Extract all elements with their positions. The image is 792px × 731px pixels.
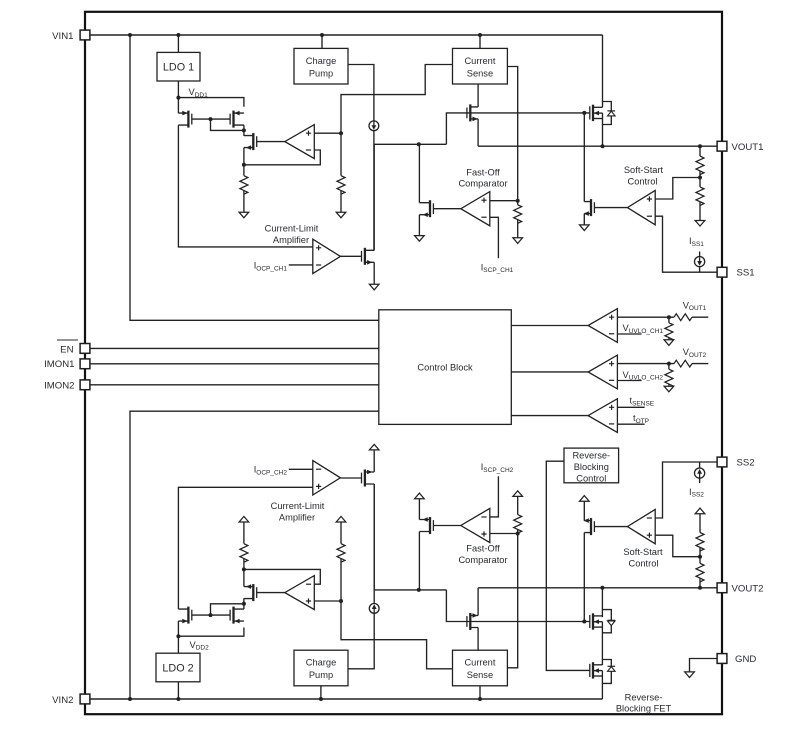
resistor R10 xyxy=(240,544,248,563)
resistor R9 xyxy=(665,369,673,388)
wire VIN1 to current sense xyxy=(479,35,481,48)
wire M13 drain down to gate-drive line (CH2) xyxy=(373,484,375,590)
node current-sense voltage xyxy=(339,131,343,135)
ground above R12 xyxy=(513,491,523,497)
block Reverse-Blocking Control xyxy=(564,448,619,483)
wire SS - input to SS2 pin (CH2) xyxy=(655,462,717,518)
wire control block to UVLO1 comparator xyxy=(511,325,588,327)
wire M7 source to ground xyxy=(583,214,585,225)
wire SS - input to SS1 pin xyxy=(655,216,717,272)
block Current Sense (CH2) xyxy=(453,650,508,686)
wire UVLO2 - stub xyxy=(617,380,641,382)
svg-text:EN: EN xyxy=(60,344,73,355)
wire VIN2 rail xyxy=(85,698,602,700)
resistor R7 xyxy=(665,323,673,342)
wire divider top resistor stem (CH2) xyxy=(699,578,701,588)
wire sense node up to Current Sense block xyxy=(341,65,453,134)
ground above R11 xyxy=(336,516,346,522)
ground below M5 xyxy=(415,236,425,242)
transistor M8 current-mirror left (CH2) xyxy=(178,607,191,624)
wire R13 to tap xyxy=(699,557,701,564)
svg-text:Control: Control xyxy=(629,558,659,568)
svg-text:Pump: Pump xyxy=(309,670,333,680)
wire ISS1 to SS1 line xyxy=(699,267,701,273)
svg-text:Control: Control xyxy=(628,177,658,187)
wire charge pump output xyxy=(348,65,374,121)
svg-text:IOCP_CH2: IOCP_CH2 xyxy=(254,465,288,477)
ground below R3 xyxy=(513,238,523,244)
wire IMON1 input xyxy=(85,363,379,365)
junction VOUT1 / divider xyxy=(698,144,702,148)
wire tap to SS + input xyxy=(655,178,700,200)
svg-text:LDO 1: LDO 1 xyxy=(163,62,194,74)
resistor R4 divider top xyxy=(696,156,704,175)
resistor R5 divider bottom xyxy=(696,187,704,206)
wire VIN1 to LDO1 xyxy=(177,35,179,52)
transistor M10 sense mirror (CH2) xyxy=(244,584,257,601)
svg-text:Comparator: Comparator xyxy=(458,555,507,565)
ground at GND pin xyxy=(685,672,695,678)
body diode of Q2 xyxy=(608,620,616,625)
svg-text:VUVLO_CH1: VUVLO_CH1 xyxy=(623,323,664,335)
current source gate-drive (CH2) xyxy=(369,604,379,614)
svg-text:ISS1: ISS1 xyxy=(689,236,704,248)
wire CL amp output to clamp gate (CH2) xyxy=(340,477,361,479)
block Charge Pump (CH2) xyxy=(294,650,348,686)
wire IOCP_CH1 - input stub xyxy=(289,264,313,266)
wire VIN2 to charge pump (CH2) xyxy=(320,686,322,699)
wire M7 drain to gate line xyxy=(583,113,585,202)
wire current source to gate node xyxy=(373,131,375,251)
comparator Fast-Off (CH1) xyxy=(461,192,490,226)
comparator thermal shutdown xyxy=(588,399,617,433)
wire fast-off output to pulldown gate xyxy=(433,208,460,210)
svg-text:GND: GND xyxy=(735,654,756,665)
junction VOUT2 / divider xyxy=(698,586,702,590)
wire UVLO1 - stub xyxy=(617,333,641,335)
wire VOUT1 rail xyxy=(478,145,717,147)
wire control block to thermal comparator xyxy=(511,415,588,417)
comparator VUVLO_CH2 xyxy=(588,355,617,389)
wire tap to R5 xyxy=(699,178,701,187)
wire feedback node resistor stem xyxy=(243,165,245,176)
op-amp Current-Limit Amplifier (CH1) xyxy=(313,239,341,273)
node VDD1 xyxy=(176,96,180,100)
wire tap to R14 xyxy=(699,547,701,556)
wire Q1 body diode branch xyxy=(603,102,612,111)
svg-text:Blocking FET: Blocking FET xyxy=(616,704,672,714)
wire A2 - feedback (CH2) xyxy=(244,569,320,584)
ground above M13 xyxy=(369,444,379,450)
wire sense FET source to VOUT1 xyxy=(477,119,479,146)
block Control Block xyxy=(379,310,512,425)
svg-text:SS1: SS1 xyxy=(737,267,755,278)
wire control block to UVLO2 comparator xyxy=(511,371,588,373)
pin VOUT2 xyxy=(717,583,727,593)
svg-text:Sense: Sense xyxy=(467,69,493,79)
wire IMON2 input xyxy=(85,384,379,386)
ground above R10 xyxy=(239,516,249,522)
wire M10 source to feedback node (CH2) xyxy=(243,569,245,586)
wire Q1 diode return xyxy=(603,116,612,125)
wire VIN1 to charge pump xyxy=(321,35,323,48)
svg-text:Charge: Charge xyxy=(306,56,337,66)
wire IOCP_CH2 - input stub xyxy=(289,468,313,470)
svg-text:VDD2: VDD2 xyxy=(190,640,210,652)
ground below R9 xyxy=(664,386,674,392)
wire sense FET drain to Current Sense (CH2) xyxy=(477,628,479,651)
ground below M6 xyxy=(369,284,379,290)
wire M2 drain to M3 drain xyxy=(243,125,245,136)
transistor Q1 blocking FET xyxy=(590,105,603,121)
comparator VUVLO_CH1 xyxy=(588,309,617,343)
label pin EN with overline xyxy=(57,340,78,355)
svg-text:IMON2: IMON2 xyxy=(44,380,74,391)
pin VOUT1 xyxy=(717,141,727,151)
op-amp A1 gate-drive amplifier xyxy=(285,125,315,159)
pin EN xyxy=(80,344,90,354)
wire CL amp output to clamp gate xyxy=(340,255,361,257)
resistor R11 xyxy=(337,544,345,563)
current source ISS1 xyxy=(695,257,705,267)
wire R8 to VOUT2 stub xyxy=(692,363,708,365)
svg-text:Current-Limit: Current-Limit xyxy=(271,501,325,511)
wire VOUT2 to blocking FET drain xyxy=(601,588,603,617)
wire GND pin to ground symbol xyxy=(690,659,718,672)
wire mirror gates xyxy=(192,118,230,120)
resistor R12 xyxy=(514,515,522,534)
svg-text:Blocking: Blocking xyxy=(574,462,609,472)
transistor M6 gate clamp xyxy=(362,248,375,265)
block LDO 2 xyxy=(156,653,200,682)
wire LDO1 output to VDD1 node xyxy=(177,81,179,98)
ground below R1 xyxy=(239,212,249,218)
junction VIN2 rail / left loop xyxy=(128,697,132,701)
ground below M7 xyxy=(580,225,590,231)
wire Q2 body diode branch xyxy=(602,610,611,621)
wire A1 output to M3 gate xyxy=(257,141,285,143)
wire R12 to ground xyxy=(517,496,519,514)
transistor M1 current-mirror left xyxy=(178,111,191,128)
wire VIN2 to current sense (CH2) xyxy=(479,686,481,699)
svg-text:VOUT2: VOUT2 xyxy=(683,347,707,359)
wire gate tie to M9 drain (CH2) xyxy=(211,604,244,615)
wire mirror gates (CH2) xyxy=(192,614,230,616)
wire A2 output to M10 gate xyxy=(257,592,285,594)
wire M9 drain to M10 drain xyxy=(243,598,245,609)
junction VIN1 rail / left loop xyxy=(128,33,132,37)
wire fast-off - input ISCP_CH2 xyxy=(490,476,499,517)
wire current source to gate node (CH2) xyxy=(373,484,375,604)
node VDD2 xyxy=(176,634,180,638)
junction VIN2 rail / current sense xyxy=(478,697,482,701)
junction gate line / soft-start pulldown xyxy=(582,111,586,115)
wire tOTP - stub xyxy=(617,423,644,425)
junction mirror gate tie (CH2) xyxy=(209,613,213,617)
junction VOUT2 / Q2 drain xyxy=(600,586,604,590)
pin GND xyxy=(717,654,727,664)
wire SS amp output to pulldown gate (CH2) xyxy=(594,526,627,528)
node current-sense voltage (CH2) xyxy=(339,599,343,603)
resistor R14 divider bottom (CH2) xyxy=(696,533,704,552)
transistor M5 fast-off pulldown xyxy=(419,200,433,217)
pin VIN2 xyxy=(80,694,90,704)
pin IMON2 xyxy=(80,380,90,390)
svg-text:VIN1: VIN1 xyxy=(52,31,73,42)
transistor M12 fast-off pulldown (CH2) xyxy=(419,517,433,534)
wire M6 source to ground xyxy=(373,262,375,284)
wire tap to SS + input (CH2) xyxy=(655,535,700,557)
svg-text:Pump: Pump xyxy=(309,69,333,79)
wire A2 + input to sense node (CH2) xyxy=(314,600,341,602)
junction mirror gate tie xyxy=(209,117,213,121)
block Current Sense (CH1) xyxy=(453,48,508,84)
wire A1 - feedback xyxy=(244,150,320,165)
wire R9 to ground xyxy=(668,384,670,386)
wire UVLO2 + input xyxy=(617,363,674,365)
svg-text:VOUT2: VOUT2 xyxy=(732,583,764,594)
wire M14 source to ground (CH2) xyxy=(583,501,585,520)
pin SS2 xyxy=(717,457,727,467)
ground below R2 xyxy=(336,212,346,218)
wire UVLO2 divider stem xyxy=(668,364,670,370)
wire R14 to ground xyxy=(699,514,701,533)
junction UVLO1 + node xyxy=(667,315,671,319)
wire M14 drain to gate line (CH2) xyxy=(583,533,585,622)
transistor Q3 reverse-blocking FET xyxy=(590,662,603,678)
resistor R3 xyxy=(514,205,522,224)
transistor M2 current-mirror right xyxy=(230,111,244,128)
wire M12 drain to gate node (CH2) xyxy=(418,532,420,590)
wire fast-off + input xyxy=(490,200,518,202)
wire A1 + input to sense node xyxy=(314,132,341,134)
junction gate node / fast-off pulldown xyxy=(417,142,421,146)
wire fast-off + resistor stem xyxy=(517,201,519,205)
wire VDD2 up to mirror left source xyxy=(177,621,179,636)
wire feedback node resistor stem (CH2) xyxy=(243,559,245,570)
ground above R14 xyxy=(695,508,705,514)
svg-text:Fast-Off: Fast-Off xyxy=(466,167,500,177)
wire M8 drain to current-limit amp + input (CH2) xyxy=(178,487,312,609)
wire M5 drain to gate node xyxy=(418,144,420,202)
comparator Fast-Off (CH2) xyxy=(461,508,490,542)
svg-text:VOUT1: VOUT1 xyxy=(732,142,764,153)
wire gate node up to FET gates xyxy=(446,113,590,144)
svg-text:Current: Current xyxy=(464,658,495,668)
wire R11 to ground xyxy=(340,522,342,544)
svg-text:VUVLO_CH2: VUVLO_CH2 xyxy=(623,370,664,382)
wire R4 to tap xyxy=(699,171,701,178)
svg-text:Comparator: Comparator xyxy=(458,179,507,189)
wire fast-off output to pulldown gate (CH2) xyxy=(433,525,460,527)
wire M3 source to feedback node xyxy=(243,148,245,165)
svg-text:Current: Current xyxy=(464,56,495,66)
transistor Q2 blocking FET (CH2) xyxy=(590,613,603,629)
node divider tap (CH2) xyxy=(698,555,702,559)
wire R2 to ground xyxy=(340,191,342,213)
pin SS1 xyxy=(717,267,727,277)
wire M12 source to ground (CH2) xyxy=(418,499,420,520)
resistor R8 VOUT2 sense xyxy=(674,360,692,367)
wire gate tie to M2 drain xyxy=(211,119,244,130)
svg-text:Soft-Start: Soft-Start xyxy=(623,547,663,557)
wire Q2 diode return xyxy=(602,626,611,633)
wire sense FET source to VOUT2 xyxy=(477,588,479,616)
wire gate node branch (CH2) xyxy=(374,589,446,591)
svg-text:LDO 2: LDO 2 xyxy=(162,662,193,674)
wire VIN1 to blocking FET drain xyxy=(602,35,604,107)
transistor M11 sense FET (CH2) xyxy=(467,613,478,630)
junction fast-off + node xyxy=(516,199,520,203)
junction VIN1 rail / charge pump xyxy=(320,33,324,37)
wire ISS1 stub top xyxy=(699,252,701,257)
wire gate node branch xyxy=(374,143,447,145)
junction M2 drain node xyxy=(242,128,246,132)
transistor M3 sense mirror xyxy=(244,133,257,150)
svg-text:ISCP_CH1: ISCP_CH1 xyxy=(481,262,514,274)
wire M1 drain to current-limit amp + input xyxy=(178,125,312,247)
svg-text:Amplifier: Amplifier xyxy=(279,512,315,522)
wire R6 to VOUT1 stub xyxy=(692,316,708,318)
op-amp A2 gate-drive amplifier (CH2) xyxy=(285,576,315,610)
op-amp Soft-Start Control (CH2) xyxy=(627,509,655,543)
resistor R1 xyxy=(240,176,248,195)
wire M13 source to ground (CH2) xyxy=(373,450,375,472)
body diode of Q1 xyxy=(608,111,616,116)
block Charge Pump (CH1) xyxy=(294,48,348,84)
junction feedback node (CH2) xyxy=(242,567,246,571)
svg-text:Fast-Off: Fast-Off xyxy=(466,543,500,553)
junction feedback node xyxy=(242,163,246,167)
node divider tap xyxy=(698,176,702,180)
wire Current Sense output to fast-off comparator (CH2) xyxy=(507,534,517,668)
svg-text:IOCP_CH1: IOCP_CH1 xyxy=(254,261,288,273)
wire reverse-blocking control to Q3 gate xyxy=(546,461,590,670)
wire tSENSE + stub xyxy=(617,406,644,408)
wire charge pump output (CH2) xyxy=(348,613,374,669)
wire VIN2 to LDO2 xyxy=(177,682,179,699)
wire VIN1 to control block (left loop) xyxy=(130,35,379,320)
op-amp Current-Limit Amplifier (CH2) xyxy=(313,461,341,495)
wire UVLO1 divider stem xyxy=(668,317,670,323)
wire VDD2 rail to mirror right source xyxy=(178,628,244,637)
ground above M14 xyxy=(580,496,590,502)
junction M9 drain node (CH2) xyxy=(242,602,246,606)
svg-text:Current-Limit: Current-Limit xyxy=(265,224,319,234)
ground above M12 xyxy=(415,493,425,499)
wire divider top resistor stem xyxy=(699,146,701,156)
junction VIN2 rail / charge pump xyxy=(319,697,323,701)
wire EN input xyxy=(85,347,379,349)
junction gate line / soft-start pulldown (CH2) xyxy=(582,620,586,624)
wire VDD1 down to mirror left source xyxy=(177,98,179,114)
wire R3 to ground xyxy=(517,220,519,238)
wire Q3 source to VIN2 rail xyxy=(601,671,603,699)
transistor M7 soft-start pulldown xyxy=(584,199,595,216)
wire ISS2 stub bottom xyxy=(699,478,701,483)
wire VOUT2 rail xyxy=(478,587,717,589)
block LDO 1 xyxy=(157,52,200,81)
wire sense node resistor stem xyxy=(340,133,342,176)
wire Q3 diode return xyxy=(602,671,611,683)
junction fast-off + node (CH2) xyxy=(516,532,520,536)
junction VIN1 rail / LDO1 xyxy=(176,33,180,37)
wire fast-off + input (CH2) xyxy=(490,533,518,535)
wire sense node down to Current Sense block (CH2) xyxy=(341,601,453,669)
ground below R5 xyxy=(695,221,705,227)
wire R10 to ground xyxy=(243,522,245,544)
junction UVLO2 + node xyxy=(667,362,671,366)
wire Q2 source to Q3 drain xyxy=(601,622,603,665)
wire R7 to ground xyxy=(668,338,670,340)
pin IMON1 xyxy=(80,359,90,369)
svg-text:ISS2: ISS2 xyxy=(689,487,704,499)
wire Q1 source to VOUT1 rail xyxy=(602,113,604,146)
svg-text:Amplifier: Amplifier xyxy=(273,235,309,245)
svg-text:Soft-Start: Soft-Start xyxy=(624,165,664,175)
wire R5 to ground xyxy=(699,202,701,221)
resistor R13 divider top (CH2) xyxy=(696,563,704,582)
wire gate node down to FET gates (CH2) xyxy=(446,590,590,622)
svg-text:Sense: Sense xyxy=(467,670,493,680)
wire R1 to ground xyxy=(243,191,245,213)
wire Current Sense output to fast-off comparator xyxy=(507,67,517,201)
wire M6 drain up to gate-drive line xyxy=(373,144,375,250)
junction VIN2 rail / LDO2 xyxy=(176,697,180,701)
resistor R6 VOUT1 sense xyxy=(674,314,692,321)
body diode of Q3 xyxy=(608,666,616,671)
wire SS amp output to pulldown gate xyxy=(594,207,627,209)
wire UVLO1 + input xyxy=(617,316,674,318)
wire sense FET drain to Current Sense xyxy=(477,84,479,107)
svg-text:VIN2: VIN2 xyxy=(52,695,73,706)
wire fast-off - input ISCP_CH1 xyxy=(490,217,499,258)
svg-text:IMON1: IMON1 xyxy=(44,359,74,370)
svg-text:tOTP: tOTP xyxy=(633,413,649,425)
junction VIN1 rail / current sense xyxy=(478,33,482,37)
current source ISS2 xyxy=(695,468,705,478)
pin VIN1 xyxy=(80,30,90,40)
svg-text:Reverse-: Reverse- xyxy=(625,693,663,703)
junction gate node / fast-off pulldown (CH2) xyxy=(417,588,421,592)
wire VDD1 rail to mirror right source xyxy=(178,98,244,107)
transistor M13 gate clamp (CH2) xyxy=(362,470,375,487)
current source gate-drive xyxy=(369,121,379,131)
svg-text:VOUT1: VOUT1 xyxy=(683,300,707,312)
svg-text:Charge: Charge xyxy=(306,658,337,668)
resistor R2 xyxy=(337,176,345,195)
svg-text:SS2: SS2 xyxy=(737,457,755,468)
wire ISS2 to SS2 line xyxy=(699,462,701,468)
wire fast-off + resistor stem (CH2) xyxy=(517,529,519,533)
svg-text:tSENSE: tSENSE xyxy=(630,396,655,408)
svg-text:Reverse-: Reverse- xyxy=(572,451,610,461)
transistor M14 soft-start pulldown (CH2) xyxy=(584,518,595,535)
transistor M4 sense FET xyxy=(467,104,478,121)
wire sense node resistor stem (CH2) xyxy=(340,559,342,602)
junction VOUT1 / Q1 source xyxy=(601,144,605,148)
wire M5 source to ground xyxy=(418,215,420,236)
ground below R7 xyxy=(664,340,674,346)
wire LDO2 output to VDD2 node xyxy=(177,636,179,653)
svg-text:ISCP_CH2: ISCP_CH2 xyxy=(481,462,514,474)
IC outline border xyxy=(85,12,722,714)
op-amp Soft-Start Control (CH1) xyxy=(627,190,655,224)
svg-text:Control Block: Control Block xyxy=(417,363,473,373)
wire VIN2 to control block (left loop) xyxy=(130,411,379,699)
wire Q3 body diode branch xyxy=(602,660,611,667)
svg-text:Control: Control xyxy=(576,473,606,483)
